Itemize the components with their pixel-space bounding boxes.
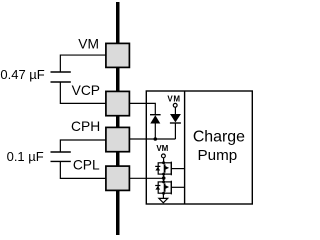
svg-text:0.1 µF: 0.1 µF	[7, 149, 44, 164]
svg-text:VCP: VCP	[72, 83, 100, 98]
svg-text:Pump: Pump	[198, 147, 238, 164]
svg-text:CPL: CPL	[73, 157, 100, 172]
svg-text:0.47 µF: 0.47 µF	[0, 67, 44, 82]
svg-text:VM: VM	[167, 94, 180, 103]
svg-text:VM: VM	[156, 144, 168, 153]
svg-text:Charge: Charge	[193, 128, 245, 145]
svg-text:CPH: CPH	[71, 119, 100, 134]
svg-text:VM: VM	[78, 37, 99, 52]
